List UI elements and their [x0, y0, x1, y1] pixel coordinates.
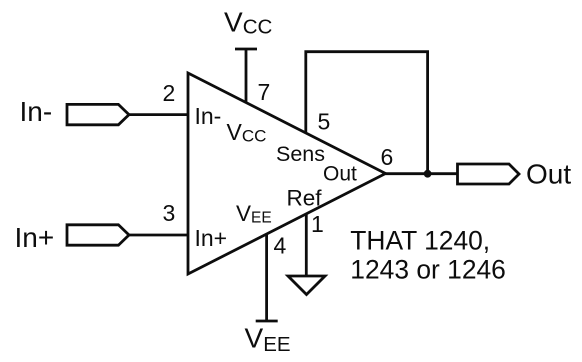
port In- (input connector symbol): [67, 104, 129, 124]
wire Sens feedback loop (pin 5 to output node): [306, 52, 428, 174]
Vcc supply stub (pin 7): [235, 49, 257, 103]
svg-text:1: 1: [311, 211, 324, 237]
svg-text:5: 5: [318, 109, 331, 135]
svg-text:Ref: Ref: [287, 186, 323, 211]
svg-text:2: 2: [163, 80, 176, 106]
svg-text:Out: Out: [323, 163, 357, 186]
Vee supply stub (pin 4): [256, 234, 278, 321]
svg-text:4: 4: [274, 233, 287, 259]
label THAT 1240, 1243 or 1246 (part callout): [350, 226, 506, 285]
svg-text:In+: In+: [195, 225, 228, 251]
port In+ (input connector symbol): [67, 225, 129, 245]
op-amp U1 body (THAT 1240/1243/1246 triangle): [188, 73, 386, 274]
svg-text:6: 6: [381, 144, 394, 170]
svg-text:In-: In-: [195, 103, 222, 129]
svg-text:In-: In-: [20, 96, 53, 127]
svg-text:Sens: Sens: [276, 142, 325, 166]
junction dot (output node): [424, 170, 432, 178]
wire In- input to pin 2: [129, 113, 188, 116]
svg-text:1243 or 1246: 1243 or 1246: [350, 254, 506, 284]
wire Ref (pin 1) to ground: [305, 214, 308, 276]
wire output (pin 6 to port): [386, 172, 459, 175]
ground symbol: [288, 276, 325, 295]
port Out (output connector symbol): [458, 164, 520, 184]
svg-text:THAT 1240,: THAT 1240,: [350, 226, 490, 256]
svg-text:3: 3: [163, 200, 176, 226]
svg-text:Out: Out: [526, 159, 571, 190]
svg-text:In+: In+: [15, 222, 55, 253]
wire In+ input to pin 3: [129, 234, 188, 237]
svg-text:7: 7: [258, 79, 271, 105]
